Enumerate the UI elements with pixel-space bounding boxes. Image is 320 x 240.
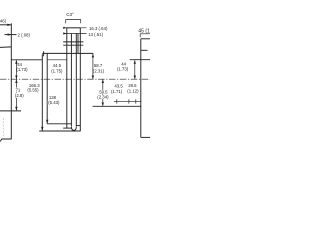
center object: inner wall x78 <box>77 34 79 54</box>
center object: flange bar y45.2 <box>63 44 83 46</box>
right object: dim line y101.3 <box>114 99 142 103</box>
center object: U slot left <box>70 34 72 127</box>
center object: shelf dim 44.5 <box>42 51 93 56</box>
svg-text:43.5: 43.5 <box>114 83 123 88</box>
svg-text:13 (.51): 13 (.51) <box>88 32 103 37</box>
center object: bottom line B <box>63 127 71 129</box>
svg-text:58.7: 58.7 <box>94 63 103 68</box>
svg-text:(1.73): (1.73) <box>16 67 28 72</box>
arrow 58.7 up <box>92 54 94 58</box>
right object: ext line y106.4 <box>93 105 142 107</box>
arrow 44R down <box>134 76 136 80</box>
center object: top edge <box>67 27 81 29</box>
svg-text:(5.55): (5.55) <box>27 87 39 92</box>
centerline <box>0 78 150 80</box>
svg-text:(1.75): (1.75) <box>51 68 63 73</box>
svg-text:(1.12): (1.12) <box>127 88 139 93</box>
right object: flange line <box>130 59 150 61</box>
svg-text:2 (.08): 2 (.08) <box>18 32 31 37</box>
left object: top edge <box>11 59 42 61</box>
left object: step line <box>0 110 21 112</box>
svg-text:(1.73): (1.73) <box>117 67 129 72</box>
arrow 16.3 left <box>63 27 67 29</box>
arrow 44R up <box>134 60 136 64</box>
center object: right edge <box>79 28 81 131</box>
svg-text:71: 71 <box>16 88 21 93</box>
center object: small step right of U <box>76 125 80 127</box>
svg-text:(2.31): (2.31) <box>93 69 105 74</box>
arrow 166.3 down <box>41 127 43 131</box>
svg-text:(2.34): (2.34) <box>97 94 109 99</box>
right object: left edge <box>140 39 142 138</box>
left object: top step edge <box>0 46 11 49</box>
arrow 59.5 down <box>102 79 104 83</box>
svg-text:(1.71): (1.71) <box>111 89 123 94</box>
left object: dim line top (.46) <box>0 24 11 26</box>
center object: bottom line C <box>39 130 80 132</box>
arrow 58.7 down <box>92 76 94 80</box>
svg-text:(.46): (.46) <box>0 18 7 23</box>
center object: edge x47.2 / dim 138 <box>46 53 48 123</box>
center object: flange bar y41.9 <box>63 41 83 43</box>
svg-text:45 (1.: 45 (1. <box>138 28 150 34</box>
right object: dim 59.5 vertical <box>102 79 104 106</box>
arrow 2(.08) right tip <box>8 33 12 35</box>
arrows 44/71 at centerline <box>15 76 17 80</box>
svg-text:(5.43): (5.43) <box>48 100 60 105</box>
left object: right edge <box>41 54 43 131</box>
right object: bottom edge <box>141 136 150 138</box>
center object: leader 16.3 <box>64 27 87 29</box>
svg-text:28.5: 28.5 <box>128 83 137 88</box>
arrow 13 left <box>63 32 67 34</box>
right object: dim 44 vertical <box>134 60 136 79</box>
right object: dim 58.7 vertical <box>92 53 94 79</box>
right object: inner line <box>141 49 148 51</box>
center object: ref line y59.8 <box>47 59 67 61</box>
svg-text:(2.8): (2.8) <box>15 93 24 98</box>
arrow 71 down <box>15 107 17 111</box>
right object: dim line 45 <box>140 34 150 38</box>
right object: top edge <box>141 38 150 40</box>
center object: leader 13 / edge <box>64 33 87 35</box>
svg-text:44.5: 44.5 <box>53 63 62 68</box>
svg-text:16.3 (.64): 16.3 (.64) <box>89 26 108 31</box>
arrow 138 down <box>46 120 48 124</box>
dim line 44/71 vertical <box>15 60 17 110</box>
center object: left edge <box>66 28 68 128</box>
center object: U slot arc <box>71 127 76 130</box>
left object: bottom edge <box>0 139 12 142</box>
arrow 44 up <box>15 60 17 64</box>
center object: U slot right <box>75 34 77 127</box>
center object: bottom line A <box>47 123 71 125</box>
left object: leader 2 (.08) <box>5 34 17 36</box>
center object: dim line C3 <box>65 20 81 24</box>
svg-text:C3°: C3° <box>66 12 74 17</box>
arrow (.46) right <box>7 24 11 26</box>
left object: left wall vertical <box>10 23 12 139</box>
left object: hidden edge (dashed) <box>2 118 4 138</box>
